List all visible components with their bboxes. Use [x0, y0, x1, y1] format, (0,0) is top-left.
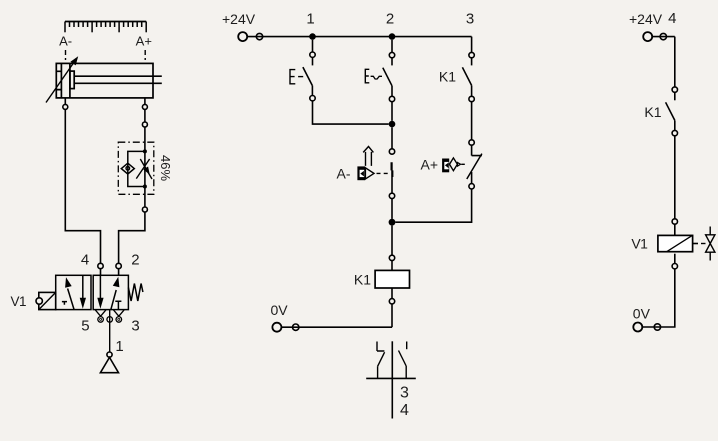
svg-text:3: 3: [466, 11, 474, 28]
svg-text:1: 1: [306, 11, 314, 28]
svg-text:K1: K1: [644, 104, 661, 120]
svg-text:V1: V1: [11, 294, 27, 309]
svg-text:2: 2: [131, 251, 139, 268]
svg-text:V1: V1: [631, 236, 648, 252]
svg-text:K1: K1: [439, 68, 456, 84]
svg-text:A-: A-: [337, 165, 351, 181]
svg-text:A+: A+: [136, 33, 152, 48]
svg-text:4: 4: [81, 251, 89, 268]
svg-text:3: 3: [131, 317, 139, 334]
svg-text:0V: 0V: [633, 305, 651, 321]
svg-text:2: 2: [386, 11, 394, 28]
svg-text:46%: 46%: [158, 155, 173, 181]
svg-text:5: 5: [81, 317, 89, 334]
svg-text:3: 3: [400, 385, 409, 402]
svg-text:K1: K1: [354, 272, 371, 288]
svg-text:+24V: +24V: [222, 11, 256, 27]
svg-text:+24V: +24V: [629, 11, 663, 27]
svg-text:4: 4: [668, 10, 676, 27]
svg-text:A-: A-: [59, 33, 72, 48]
svg-text:4: 4: [400, 402, 409, 419]
svg-text:A+: A+: [420, 157, 438, 173]
svg-text:0V: 0V: [271, 302, 289, 318]
svg-text:1: 1: [115, 338, 123, 355]
